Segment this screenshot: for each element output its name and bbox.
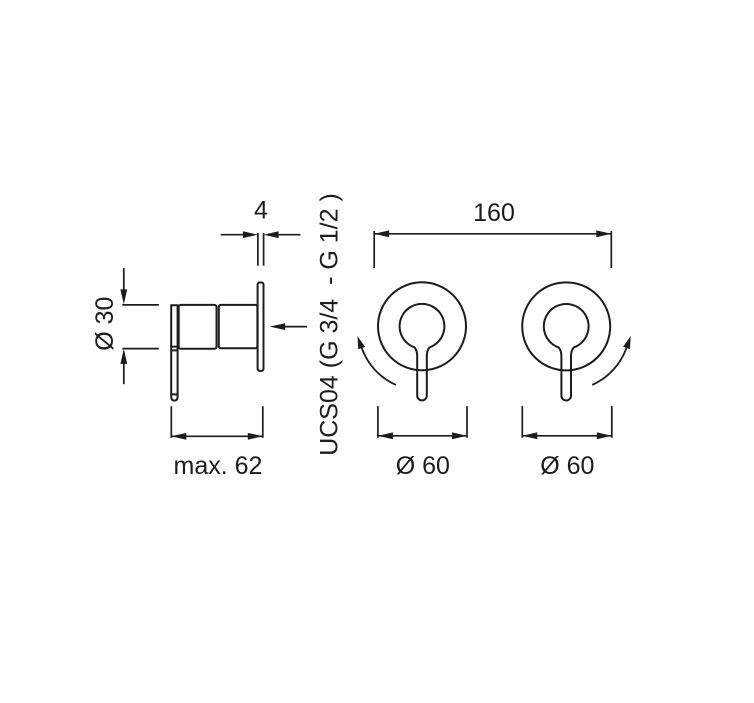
dim 4: right line	[276, 234, 301, 236]
dim O60 left: arrowheads	[378, 432, 393, 439]
svg-text:Ø 30: Ø 30	[91, 297, 119, 351]
handle B: outer circle	[522, 282, 610, 370]
handle A: inner keyhole with stem	[400, 304, 445, 401]
dim O30: vertical line lower	[123, 360, 125, 384]
dim O30: vertical line upper	[123, 268, 125, 293]
dim 4: left line	[221, 234, 246, 236]
side view: valve body section	[219, 305, 258, 348]
handle A: rotation arrowhead	[358, 336, 366, 349]
dim O60 right: extension lines	[521, 406, 523, 438]
handle A: outer circle	[378, 282, 466, 370]
dim O30: arrowheads	[120, 289, 127, 304]
svg-text:Ø 60: Ø 60	[396, 452, 450, 480]
handle B: inner keyhole with stem	[544, 304, 589, 400]
side view: lever bar	[171, 305, 177, 400]
dim O60 right: dimension line	[523, 435, 612, 437]
dim 160: arrowheads	[374, 230, 389, 237]
side view: lever joint lines	[171, 346, 177, 348]
side view: handle knob section	[179, 305, 217, 349]
dim 160: extension lines	[373, 231, 375, 268]
svg-text:UCS04 (G 3/4 - G 1/2 ): UCS04 (G 3/4 - G 1/2 )	[316, 193, 344, 456]
svg-text:4: 4	[254, 197, 268, 225]
svg-text:Ø 60: Ø 60	[540, 452, 594, 480]
dim max62: dimension line	[172, 435, 263, 437]
dim O30: extension lines	[122, 304, 158, 306]
dim max62: arrowheads	[171, 433, 186, 440]
pointer arrow line	[282, 326, 307, 328]
side view: wall plate	[258, 283, 264, 371]
handle A: rotation arc	[362, 348, 396, 385]
dim O60 left: dimension line	[378, 435, 466, 437]
dim 4: arrowheads	[243, 231, 258, 238]
handle B: rotation arrowhead	[623, 336, 631, 349]
dim max62: extension lines	[170, 406, 172, 438]
handle B: rotation arc	[592, 348, 626, 385]
svg-text:max. 62: max. 62	[174, 452, 263, 480]
pointer arrowhead	[270, 323, 286, 330]
dim O60 left: extension lines	[377, 406, 379, 438]
dim 4: extension lines	[257, 233, 259, 266]
dim O60 right: arrowheads	[522, 432, 537, 439]
dim 160: dimension line	[374, 233, 611, 235]
svg-text:160: 160	[473, 199, 515, 227]
